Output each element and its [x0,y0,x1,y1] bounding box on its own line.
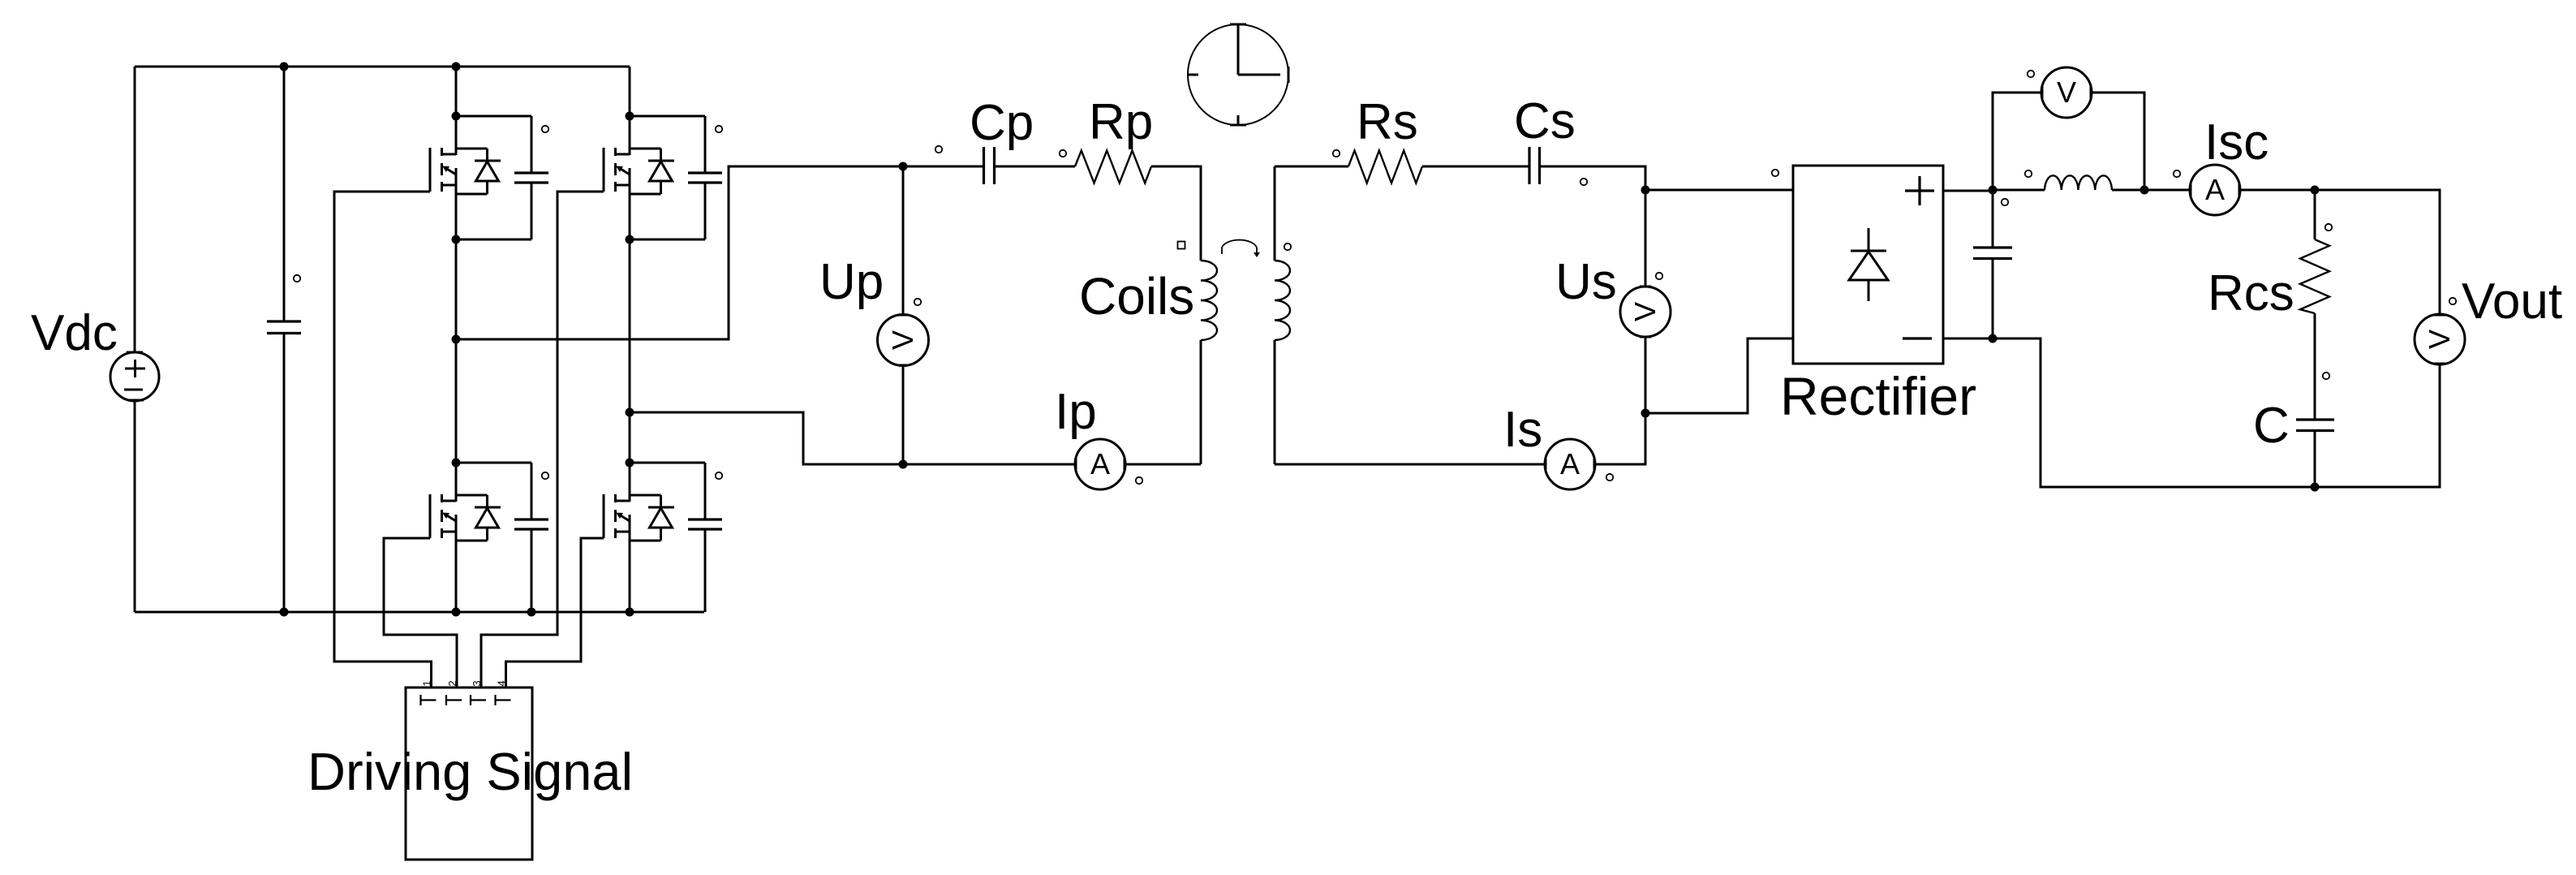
resistor Rcs marker [2325,224,2332,231]
label Rectifier [1780,366,1976,426]
label Driving Signal [307,742,633,801]
voltmeter Up wire top [902,166,905,315]
capacitor Cs label [1514,93,1576,149]
resistor Rp [1075,151,1151,183]
voltmeter V loop left [1993,93,2042,190]
ammeter Ip label [1055,384,1097,440]
ammeter Ip [1075,439,1125,489]
voltmeter Vout label [2462,274,2562,330]
svg-text:Cp: Cp [970,95,1034,151]
transistor Q3 (MOSFET with body diode) [430,463,501,586]
wire Q4 gate [506,538,604,688]
svg-text:2: 2 [446,680,458,686]
resistor Rp marker [1060,150,1066,157]
block Rectifier [1793,166,1943,364]
capacitor output filter wire bottom [1992,259,1994,338]
voltmeter Up marker [914,299,921,305]
node Q2 drain [626,112,634,121]
wire leg2 mid (Q2 source to Q4 drain) [629,239,631,463]
svg-text:Coils: Coils [1079,267,1194,325]
node bridge output B [626,408,634,417]
ports of Driving Signal block [421,680,511,705]
voltmeter Vout [2415,314,2465,364]
wire Q1 gate [334,192,432,688]
voltmeter Vout marker [2449,298,2456,304]
capacitor snubber of Q3 [456,463,548,612]
capacitor C marker [2323,373,2329,379]
wire Q2 gate [481,192,604,688]
svg-text:V: V [2423,330,2456,349]
svg-text:C: C [2253,398,2290,454]
wire leg1 mid (Q1 source to Q3 drain) [455,239,458,463]
node Q1 drain [452,112,461,121]
node inductor-V junction [2140,186,2149,195]
resistor Rs [1348,151,1422,183]
node bridge output A [452,335,461,344]
ammeter Isc [2190,165,2240,215]
label Coils [1079,267,1194,325]
wire leg1 top (rail to Q1 drain) [455,67,458,116]
inductor output filter [2045,175,2112,190]
svg-text:Cs: Cs [1514,93,1576,149]
svg-text:Ip: Ip [1055,384,1097,440]
capacitor Cdc marker [294,275,300,282]
transistor Q2 (MOSFET with body diode) [604,116,674,239]
voltmeter Us wire bottom [1645,337,1647,413]
voltage source Vdc label [31,305,118,361]
wire Cs to rectifier corner [1540,166,1645,190]
ammeter Is label [1503,402,1542,458]
wire Rs to Cs [1422,166,1529,168]
svg-text:3: 3 [471,680,483,686]
resistor Rcs [2300,239,2329,313]
voltmeter Us wire top [1645,190,1647,287]
wire secondary coil top [1274,166,1276,261]
inductor secondary coil [1275,261,1290,340]
wire Ip to coil bottom [1125,463,1201,466]
clock symbol [1188,24,1288,125]
capacitor Cs [1529,147,1540,184]
resistor Rcs label [2208,265,2294,321]
wire Rp to primary coil [1151,166,1201,261]
wire Vout bottom to rail [2315,364,2440,487]
capacitor output filter [1973,248,2012,259]
voltmeter V marker [2028,71,2034,77]
wire junction to Rcs [2314,190,2316,239]
transistor Q4 (MOSFET with body diode) [604,463,674,586]
svg-text:Up: Up [819,254,884,310]
capacitor snubber of Q2 marker [716,126,722,132]
wire tank top to Cp [903,166,983,168]
transistor Q1 (MOSFET with body diode) [430,116,501,239]
svg-text:A: A [2205,173,2225,206]
capacitor snubber of Q1 marker [542,126,548,132]
wire Cp to Rp [995,166,1075,168]
block Driving Signal [406,687,532,860]
diode inside Rectifier [1849,228,1888,301]
node output+ junction [1989,186,1998,195]
node Up top junction [899,162,908,171]
svg-text:V: V [1628,302,1662,321]
node Us bottom junction [1641,409,1650,418]
capacitor Cdc [267,321,301,334]
node Up bottom junction [899,460,908,469]
wire leg2 top (rail to Q2 drain) [629,67,631,116]
voltmeter Us marker [1656,273,1662,279]
svg-text:Vdc: Vdc [31,305,118,361]
wire inductor to Isc [2144,189,2191,192]
inductor secondary polarity marker [1284,244,1291,250]
svg-text:Rcs: Rcs [2208,265,2294,321]
node Q3 snubber rail junction [527,608,536,617]
ammeter Is [1545,439,1595,489]
capacitor Cdc branch top wire [283,67,286,321]
node bottom rail-cap junction [280,608,289,617]
wire inductor to V junction [2112,189,2144,192]
wire primary coil to tank bottom [1200,340,1202,464]
ammeter Isc marker [2174,170,2180,177]
wire Vdc bottom to rail [134,400,136,612]
node Q3 drain [452,459,461,468]
svg-text:Us: Us [1555,254,1617,310]
wire rectifier output+ [1943,190,1993,192]
capacitor output filter wire top [1992,190,1994,248]
svg-text:Rectifier: Rectifier [1780,366,1976,426]
svg-text:A: A [1090,447,1110,481]
wire bottom rail to rectifier- [1993,338,2315,487]
wire coil to Rs [1275,166,1348,168]
capacitor C label [2253,398,2290,454]
wire leg2 bottom (Q4 source to rail) [629,586,631,612]
wire rectifier output- [1943,338,1993,340]
voltmeter Us label [1555,254,1617,310]
capacitor Cp [984,147,995,184]
wire output+ to inductor [1993,189,2045,192]
wire top to Vout corner [2315,190,2440,315]
node Rcs bottom junction [2311,483,2320,492]
wire Q3 gate [384,538,457,688]
node leg2 rail junction [626,608,634,617]
voltage source Vdc [110,352,159,401]
ammeter Isc label [2204,114,2269,170]
voltmeter V loop right [2091,93,2144,190]
node top rail-leg1 junction [452,62,461,71]
capacitor Cp marker [935,146,942,153]
wire C to bottom junction [2314,431,2316,487]
plus sign in Rectifier [1905,176,1934,205]
resistor Rs label [1357,94,1418,150]
voltmeter V [2041,67,2092,118]
svg-text:Is: Is [1503,402,1542,458]
capacitor Cs marker [1580,179,1587,185]
wire Rcs to C [2314,313,2316,420]
capacitor snubber of Q4 marker [716,472,722,479]
wire Is to corner up [1594,413,1645,464]
wire Isc to Rcs junction [2239,189,2315,192]
svg-text:Rp: Rp [1089,94,1153,150]
capacitor Cp label [970,95,1034,151]
node Q1 source [452,235,461,244]
svg-text:Rs: Rs [1357,94,1418,150]
svg-text:V: V [2057,75,2076,109]
wire bottom DC rail [135,611,704,614]
svg-text:4: 4 [496,680,508,686]
svg-text:Driving Signal: Driving Signal [307,742,633,801]
wire coil bottom to Is [1275,463,1546,466]
voltmeter Up label [819,254,884,310]
resistor Rp label [1089,94,1153,150]
svg-text:Isc: Isc [2204,114,2269,170]
node output+ marker [2002,199,2008,205]
wire tank bottom to Ip [903,463,1076,466]
svg-text:Vout: Vout [2462,274,2562,330]
node Rcs top junction [2311,186,2320,195]
capacitor snubber of Q3 marker [542,472,548,479]
capacitor snubber of Q2 [630,116,722,239]
svg-text:A: A [1560,447,1580,481]
capacitor snubber of Q1 [456,116,548,239]
voltmeter Us [1620,287,1671,337]
ammeter Is marker [1606,474,1613,481]
svg-text:V: V [886,330,919,350]
node Us top junction [1641,186,1650,195]
node top rail-cap junction [280,62,289,71]
wire leg1 bottom (Q3 source to rail) [455,586,458,612]
ammeter Ip marker [1136,477,1142,484]
capacitor C [2296,420,2334,431]
node Q4 drain [626,459,634,468]
voltmeter Up [878,315,929,366]
svg-text:1: 1 [421,680,433,686]
capacitor snubber of Q4 [630,463,722,612]
capacitor Cdc branch bottom wire [283,334,286,612]
voltmeter Up wire bottom [902,365,905,464]
node Q2 source [626,235,634,244]
node leg1 rail junction [452,608,461,617]
wire Vdc top to rail [134,67,136,353]
wire bridge output A to tank top [456,166,903,339]
wire Us junction to rectifier input- [1645,338,1793,413]
node output- junction [1989,334,1998,343]
inductor filter marker [2025,170,2032,177]
inductor primary polarity marker [1178,242,1185,249]
rectifier input marker [1772,170,1778,176]
wire bridge output B to tank bottom [630,412,903,464]
inductor primary coil [1201,261,1217,340]
wire to rectifier input+ [1645,189,1793,192]
minus sign in Rectifier [1903,337,1932,339]
wire secondary coil bottom [1274,340,1276,464]
coupling arrow between coils [1222,240,1260,257]
resistor Rs marker [1333,150,1340,157]
wire top DC rail [135,66,630,68]
